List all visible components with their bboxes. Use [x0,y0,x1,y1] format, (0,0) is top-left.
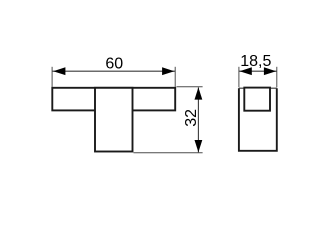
front view: bar (horizontal member) [52,88,175,111]
svg-text:18,5: 18,5 [240,53,271,70]
dim 32: top arrowhead [195,87,203,99]
dim 32: bottom extension line [134,152,203,154]
dim 18,5: right extension line [276,67,278,88]
dim 60: dimension line [52,70,175,72]
front view: stem (vertical member, drawn in front of bar) [95,88,133,152]
dim 32: dimension line [197,87,199,152]
side view: bar end face (inner rectangle) [244,88,270,111]
dim 18,5: left arrowhead [240,67,252,75]
side view: body outline (sides and bottom) [239,88,277,151]
dim 18,5: right arrowhead [264,67,276,75]
dim 18,5: left extension line [238,67,240,88]
dim 60: left arrowhead [53,67,65,75]
dim 32: top extension line [177,86,203,88]
dim 60: left extension line [51,67,53,87]
svg-text:60: 60 [105,56,123,73]
svg-text:32: 32 [183,109,200,127]
dim 18,5: dimension line [239,70,277,72]
side view: top edge (thin) [239,87,277,89]
dim 60: right extension line [174,67,176,87]
dim 32: bottom arrowhead [195,140,203,152]
dim 60: right arrowhead [162,67,174,75]
